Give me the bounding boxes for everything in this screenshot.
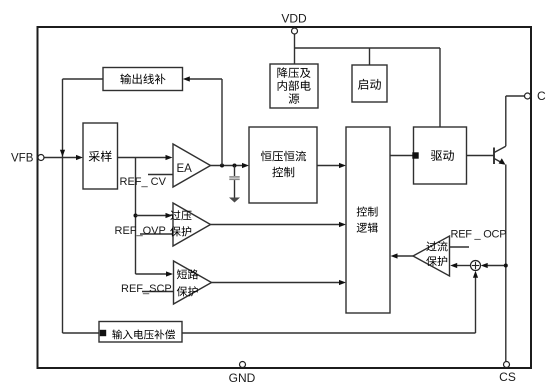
svg-text:REF_SCP: REF_SCP [121,283,172,295]
svg-text:C: C [537,89,546,103]
svg-text:REF_OVP: REF_OVP [115,225,166,237]
svg-text:REF _ OCP: REF _ OCP [451,229,507,241]
svg-text:EA: EA [177,163,193,175]
svg-text:CS: CS [499,370,516,384]
svg-text:VDD: VDD [281,12,307,26]
svg-text:REF_ CV: REF_ CV [120,176,167,188]
svg-text:VFB: VFB [11,153,34,165]
svg-text:GND: GND [229,371,256,385]
